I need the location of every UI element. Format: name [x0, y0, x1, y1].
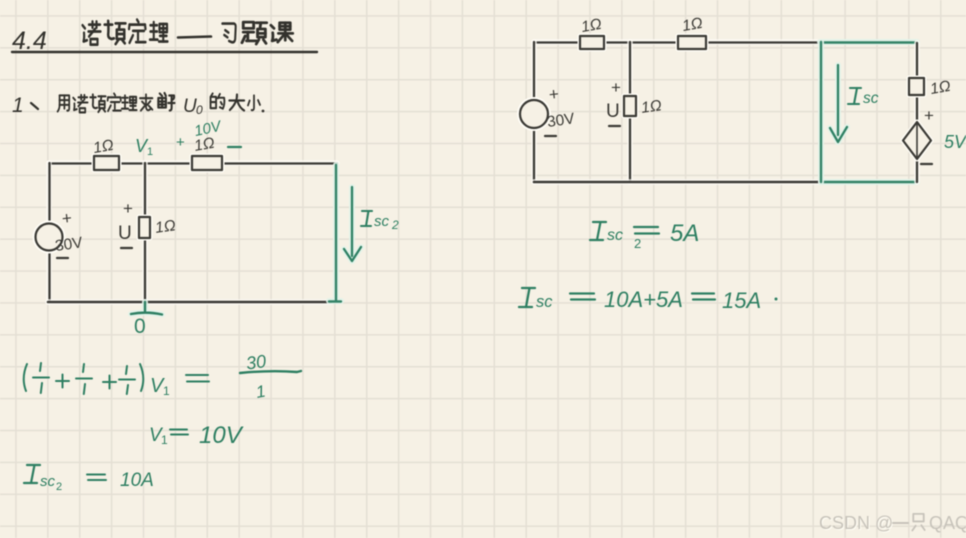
- svg-text:1: 1: [163, 384, 170, 398]
- fraction 1/1 (b): [76, 364, 92, 394]
- wire: circuit1 middle branch (node V1 down): [142, 163, 148, 302]
- watermark: CSDN @一只QAQ: [819, 513, 966, 534]
- hanzi: 小: [248, 95, 260, 110]
- svg-text:10A+5A: 10A+5A: [604, 287, 683, 312]
- svg-text:+: +: [61, 208, 73, 228]
- svg-text:U: U: [118, 223, 132, 244]
- svg-text:10V: 10V: [199, 422, 244, 449]
- plus: [56, 375, 69, 388]
- label: V1 (in equation): [150, 375, 209, 398]
- svg-text:1Ω: 1Ω: [681, 15, 704, 35]
- dependent source 5V (diamond): [903, 106, 966, 182]
- wire: circuit2 middle branch: [627, 42, 633, 182]
- svg-text:1Ω: 1Ω: [154, 217, 177, 237]
- svg-text:1: 1: [12, 94, 24, 117]
- hanzi: 课 (title): [271, 23, 293, 42]
- svg-text:1Ω: 1Ω: [929, 78, 952, 98]
- wire: circuit2 top rail (green part): [820, 39, 917, 46]
- svg-text:30V: 30V: [54, 234, 84, 255]
- equation: (1/1+1/1+1/1)V1 = 30/1: [24, 363, 144, 394]
- current arrow Isc (green): [830, 65, 879, 142]
- label: +10V- polarity over R2 (green): [176, 117, 241, 151]
- svg-text:+: +: [924, 106, 934, 125]
- svg-text:15A: 15A: [722, 288, 761, 313]
- fraction 30/1 (right side): [240, 351, 301, 402]
- paren open: [24, 364, 27, 391]
- svg-text:U: U: [183, 96, 197, 117]
- resistor R1 1ohm (top-left, horizontal): [92, 137, 119, 170]
- svg-text:5A: 5A: [670, 220, 699, 247]
- voltage source Vs2 30V: [520, 84, 576, 136]
- svg-text:+: +: [123, 199, 133, 218]
- fraction 1/1 (c): [119, 366, 135, 394]
- wire: circuit1 top rail: [49, 160, 337, 166]
- hanzi: 题 (title): [242, 22, 267, 44]
- hanzi: 顿 (title): [105, 21, 126, 44]
- hanzi: 理 (title): [150, 22, 168, 41]
- svg-text:sc: sc: [374, 213, 390, 230]
- hanzi: 理: [122, 95, 137, 110]
- plus: [103, 376, 116, 389]
- resistor R2 1ohm (top-right, horizontal) with 10V annotation: [192, 135, 222, 170]
- hanzi: 求: [140, 94, 152, 110]
- svg-text:30V: 30V: [546, 110, 576, 131]
- voltage source Vs1 30V: [36, 208, 85, 258]
- svg-text:2: 2: [391, 218, 399, 232]
- svg-text:1: 1: [147, 146, 153, 158]
- svg-text:2: 2: [56, 481, 62, 493]
- wire: circuit2 left branch: [531, 42, 537, 182]
- punctuation: period: [262, 110, 265, 113]
- hanzi: 定: [108, 93, 121, 111]
- wire: circuit1 right branch (green, short-circuit link): [329, 165, 341, 302]
- hanzi: 习 (title): [222, 24, 235, 43]
- svg-text:5V: 5V: [944, 132, 966, 152]
- svg-text:1Ω: 1Ω: [640, 97, 663, 117]
- svg-text:+: +: [548, 84, 560, 104]
- svg-text:1Ω: 1Ω: [580, 16, 603, 36]
- wire: circuit2 bottom rail (green part): [821, 179, 917, 185]
- ground node 0 (green): [131, 302, 162, 338]
- svg-text:0: 0: [196, 103, 203, 117]
- equation: V1 = 10V: [149, 422, 244, 449]
- fraction 1/1 (a): [33, 363, 49, 393]
- resistor R4 1ohm (top-left, horizontal): [580, 16, 604, 49]
- svg-text:10V: 10V: [193, 117, 225, 140]
- hanzi: 诺 (title): [83, 22, 101, 45]
- resistor R6 1ohm (middle, vertical) with U polarity: [606, 78, 663, 126]
- svg-text:sc: sc: [607, 227, 623, 244]
- svg-text:+: +: [176, 134, 185, 151]
- node V1 label (green): [135, 136, 153, 158]
- hanzi: 大: [229, 95, 244, 111]
- hanzi: 定 (title): [129, 20, 146, 43]
- wire: circuit2 short-circuit branch (green vertical): [818, 42, 824, 182]
- hanzi: 诺: [73, 95, 87, 113]
- svg-text:1Ω: 1Ω: [92, 137, 115, 157]
- resistor R5 1ohm (top-right, horizontal): [678, 15, 706, 49]
- current arrow Isc2 (green): [344, 187, 399, 261]
- svg-text:+: +: [611, 78, 621, 97]
- paren close: [140, 364, 143, 391]
- resistor R3 1ohm (middle, vertical) with U polarity: [118, 199, 177, 248]
- svg-text:30: 30: [245, 351, 268, 374]
- hanzi: 的: [211, 93, 225, 108]
- hanzi: 用: [58, 95, 70, 111]
- wire: circuit1 bottom rail: [48, 299, 331, 305]
- svg-text:1: 1: [161, 433, 168, 447]
- svg-text:2: 2: [634, 236, 641, 251]
- svg-text:1: 1: [254, 382, 267, 402]
- hanzi: 解: [158, 93, 174, 111]
- equation: Isc2 = 10A: [24, 465, 154, 493]
- title underline: [12, 51, 317, 53]
- svg-text:10A: 10A: [120, 470, 154, 491]
- wire: circuit2 top rail (dark part): [534, 39, 820, 45]
- svg-text:U: U: [606, 101, 620, 122]
- equation: Isc2 = 5A (below right circuit): [590, 220, 699, 251]
- svg-text:QAQ: QAQ: [929, 513, 966, 533]
- svg-text:sc: sc: [536, 293, 553, 311]
- wire: circuit2 bottom rail (dark part): [534, 179, 821, 185]
- svg-text:sc: sc: [40, 473, 56, 490]
- svg-text:sc: sc: [863, 90, 879, 107]
- wire: circuit1 left branch: [46, 163, 52, 302]
- dash: title em-dash: [178, 37, 211, 38]
- svg-text:0: 0: [134, 315, 146, 338]
- hanzi: 顿: [90, 94, 105, 112]
- svg-text:CSDN @: CSDN @: [819, 513, 893, 533]
- equation: Isc = 10A+5A = 15A: [519, 287, 778, 313]
- resistor R7 1ohm (right branch, vertical): [909, 43, 952, 122]
